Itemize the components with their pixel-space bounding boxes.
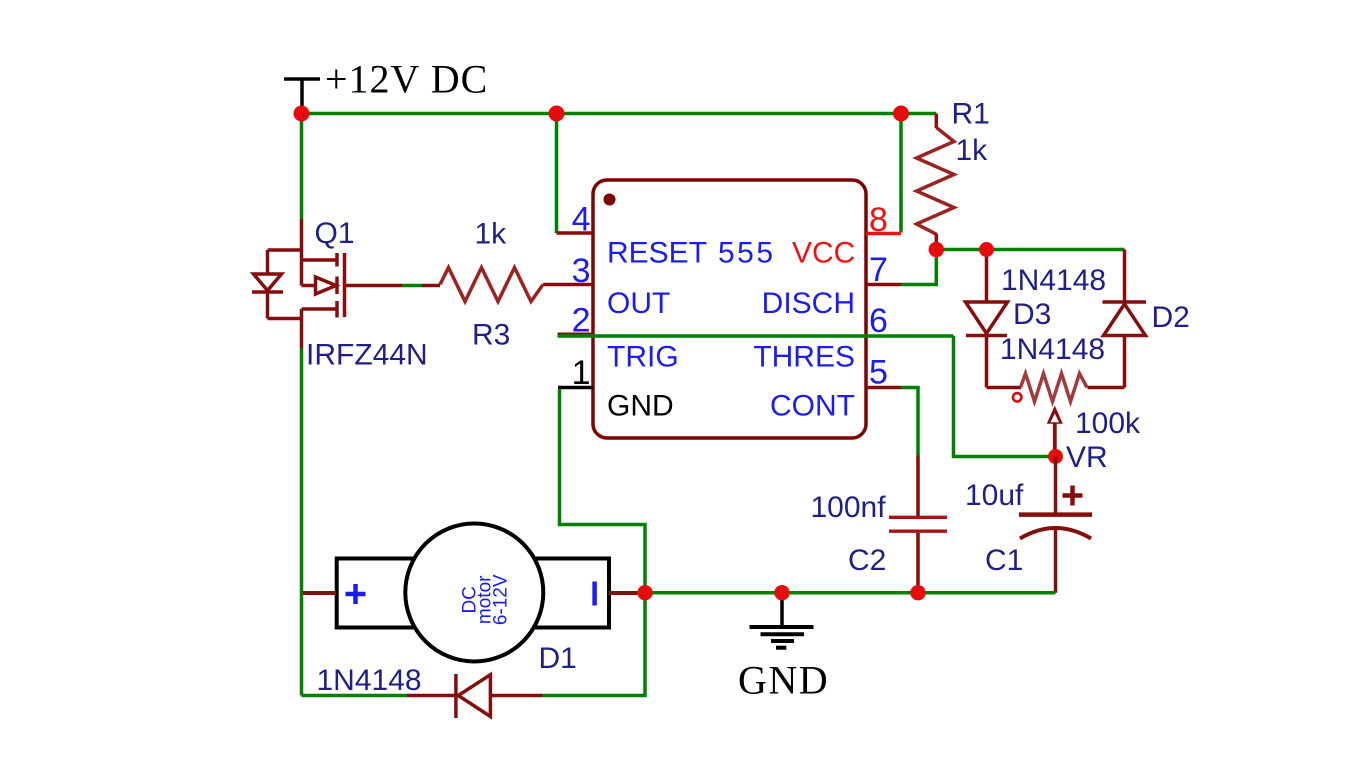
- junction VR: [1048, 449, 1063, 464]
- junction top right: [893, 106, 909, 122]
- Q1 gate lead: [345, 284, 403, 288]
- svg-text:VCC: VCC: [792, 237, 855, 270]
- svg-text:CONT: CONT: [770, 390, 855, 423]
- wire pot right lead: [1088, 386, 1125, 390]
- junction D3 top: [979, 242, 994, 257]
- pin 7 stub: [866, 283, 901, 287]
- svg-text:GND: GND: [607, 390, 674, 423]
- svg-text:3: 3: [572, 252, 591, 290]
- svg-text:4: 4: [572, 201, 591, 239]
- pin 1 stub: [558, 386, 593, 390]
- svg-text:1k: 1k: [956, 134, 989, 167]
- pot wiper arrow: [1047, 406, 1063, 424]
- pin 2 stub: [558, 333, 594, 336]
- wire drop to pin 8: [899, 114, 903, 233]
- junction ground tap: [774, 585, 789, 600]
- svg-text:OUT: OUT: [607, 287, 670, 320]
- Q1 drain arm: [302, 258, 338, 262]
- svg-text:555: 555: [718, 237, 776, 270]
- junction motor right: [637, 585, 652, 600]
- svg-text:1k: 1k: [475, 218, 508, 251]
- pin 4 stub: [557, 231, 594, 235]
- wire left rail upper: [300, 114, 304, 220]
- svg-text:TRIG: TRIG: [607, 341, 679, 374]
- Q1 channel bars: [335, 253, 339, 267]
- svg-text:8: 8: [869, 201, 888, 239]
- motor right terminal box: [509, 559, 609, 628]
- svg-text:10uf: 10uf: [965, 479, 1024, 512]
- svg-text:D1: D1: [539, 642, 577, 675]
- svg-text:1N4148: 1N4148: [1000, 333, 1105, 366]
- wire gate green segment: [402, 284, 422, 288]
- wire R1 bottom lead: [935, 234, 939, 250]
- wire D1 right lead to motor node: [543, 593, 646, 696]
- svg-text:100nf: 100nf: [811, 491, 887, 524]
- Q1 body diode top arm: [268, 248, 302, 252]
- ground symbol: [750, 593, 814, 648]
- power symbol +12V DC: [284, 79, 320, 110]
- potentiometer VR 100k: [1021, 374, 1088, 402]
- svg-text:5: 5: [869, 354, 888, 392]
- capacitor C2: [889, 456, 947, 593]
- svg-text:Q1: Q1: [315, 217, 355, 250]
- diode D3: [966, 250, 1008, 388]
- pin 8 stub (red): [866, 232, 901, 236]
- svg-text:6: 6: [869, 302, 888, 340]
- diode D1: [407, 674, 543, 718]
- motor body circle: [405, 524, 543, 662]
- svg-text:6-12V: 6-12V: [490, 574, 511, 625]
- svg-text:7: 7: [869, 251, 888, 289]
- junction R1 bottom: [929, 242, 944, 257]
- Q1 body diode: [266, 250, 270, 274]
- resistor R3: [440, 268, 543, 302]
- svg-text:+12V DC: +12V DC: [325, 57, 488, 102]
- svg-text:2: 2: [572, 302, 591, 340]
- wire pin5 to C2: [901, 388, 918, 457]
- wire top bus: [302, 112, 937, 116]
- wire pin2-pin6 through line: [558, 334, 954, 338]
- svg-text:1: 1: [572, 354, 591, 392]
- diode D2: [1103, 250, 1147, 388]
- svg-text:D2: D2: [1152, 301, 1190, 334]
- svg-text:DISCH: DISCH: [762, 287, 855, 320]
- motor left terminal box: [337, 559, 437, 628]
- svg-text:GND: GND: [738, 658, 829, 703]
- wire pin6 to VR: [954, 336, 1056, 457]
- svg-text:100k: 100k: [1075, 407, 1141, 440]
- svg-text:R1: R1: [952, 98, 990, 131]
- capacitor C1: [1019, 457, 1092, 593]
- junction top mid: [549, 106, 565, 122]
- svg-text:IRFZ44N: IRFZ44N: [306, 339, 428, 372]
- 555 IC body U1: [593, 180, 866, 438]
- junction top left: [294, 106, 310, 122]
- wire diode row horizontal: [936, 248, 1124, 252]
- svg-text:C2: C2: [848, 544, 886, 577]
- Q1 gate plate: [343, 253, 347, 317]
- junction C2 bottom: [910, 585, 925, 600]
- wire motor left stub: [303, 591, 336, 595]
- wire R1 top lead: [935, 114, 939, 129]
- wire pin7 branch: [901, 250, 936, 285]
- svg-text:1N4148: 1N4148: [1001, 264, 1106, 297]
- wire left rail lower: [300, 348, 304, 696]
- transistor Q1 IRFZ44N: [252, 219, 402, 348]
- pot terminal circle: [1013, 393, 1021, 401]
- Q1 body diode bottom arm: [268, 317, 302, 321]
- svg-text:C1: C1: [985, 544, 1023, 577]
- pin 1 marker dot: [604, 194, 616, 206]
- svg-text:RESET: RESET: [607, 237, 707, 270]
- pin 5 stub: [866, 386, 901, 390]
- motor bar mark: [592, 582, 597, 606]
- wire D1 left lead (green): [302, 694, 408, 698]
- Q1 drain trunk: [300, 219, 304, 286]
- pin 3 stub / R3 wire: [543, 283, 593, 287]
- motor plus mark: [346, 584, 366, 604]
- Q1 source arm: [302, 307, 338, 311]
- Q1 body arm: [302, 284, 317, 288]
- wire pot left lead: [987, 386, 1022, 390]
- svg-text:VR: VR: [1066, 441, 1108, 474]
- Q1 source trunk: [300, 309, 304, 348]
- svg-text:D3: D3: [1013, 298, 1051, 331]
- wire drop to pin 4: [555, 114, 559, 234]
- svg-text:THRES: THRES: [753, 341, 855, 374]
- motor text: [459, 574, 511, 625]
- wire ground bus: [645, 591, 1056, 595]
- svg-text:1N4148: 1N4148: [317, 664, 422, 697]
- pot wiper stem: [1053, 424, 1057, 457]
- svg-text:R3: R3: [472, 319, 510, 352]
- Q1 body arrowhead: [316, 277, 337, 294]
- wire pin1 down: [560, 389, 646, 593]
- resistor R1: [917, 128, 955, 235]
- wire motor right stub: [609, 591, 640, 595]
- wire gate to R3: [422, 284, 440, 288]
